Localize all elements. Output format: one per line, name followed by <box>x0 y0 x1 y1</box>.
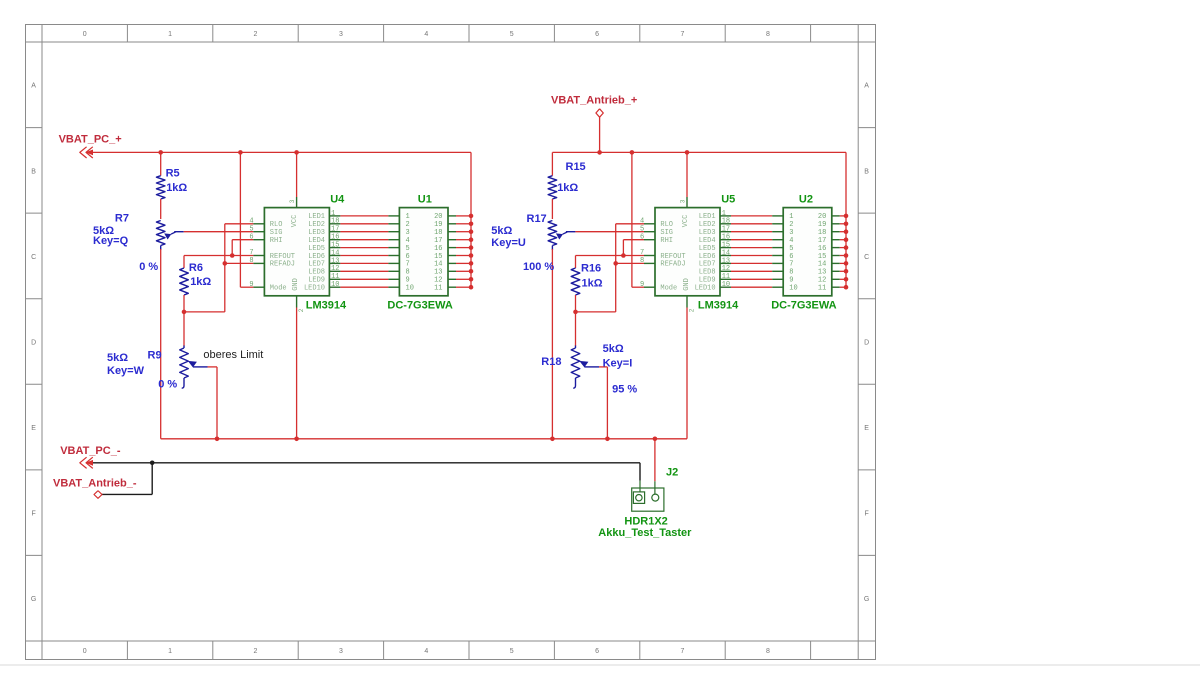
svg-text:Key=W: Key=W <box>107 365 145 377</box>
svg-text:1kΩ: 1kΩ <box>557 182 578 194</box>
svg-text:11: 11 <box>434 285 442 293</box>
svg-text:5: 5 <box>789 245 793 253</box>
svg-text:18: 18 <box>818 229 826 237</box>
svg-text:LED5: LED5 <box>308 245 325 253</box>
svg-text:G: G <box>864 596 869 603</box>
svg-text:7: 7 <box>789 261 793 269</box>
svg-text:LM3914: LM3914 <box>306 299 347 311</box>
svg-text:Mode: Mode <box>660 285 677 293</box>
svg-text:VBAT_Antrieb_+: VBAT_Antrieb_+ <box>551 95 637 107</box>
svg-text:LED6: LED6 <box>699 253 716 261</box>
svg-text:1: 1 <box>168 648 172 655</box>
svg-text:4: 4 <box>424 648 428 655</box>
svg-text:GND: GND <box>292 278 300 291</box>
svg-text:R9: R9 <box>148 349 162 361</box>
svg-text:2: 2 <box>298 308 305 312</box>
svg-text:E: E <box>31 425 36 432</box>
svg-text:4: 4 <box>249 217 253 225</box>
svg-text:U4: U4 <box>330 194 345 206</box>
svg-text:LED8: LED8 <box>308 269 325 277</box>
svg-text:19: 19 <box>818 221 826 229</box>
svg-text:10: 10 <box>722 281 730 289</box>
svg-text:16: 16 <box>722 234 730 242</box>
svg-text:17: 17 <box>722 226 730 234</box>
svg-text:11: 11 <box>818 285 826 293</box>
svg-text:95 %: 95 % <box>612 384 637 396</box>
svg-text:R7: R7 <box>115 212 129 224</box>
svg-text:oberes Limit: oberes Limit <box>203 349 263 361</box>
svg-text:RLO: RLO <box>660 221 673 229</box>
svg-text:4: 4 <box>406 237 410 245</box>
svg-text:Akku_Test_Taster: Akku_Test_Taster <box>598 527 692 539</box>
svg-text:8: 8 <box>640 257 644 265</box>
svg-text:14: 14 <box>331 249 339 257</box>
svg-text:13: 13 <box>331 257 339 265</box>
svg-text:7: 7 <box>681 31 685 38</box>
svg-text:SIG: SIG <box>270 229 283 237</box>
svg-text:10: 10 <box>406 285 414 293</box>
svg-text:F: F <box>31 511 35 518</box>
svg-text:REFOUT: REFOUT <box>270 253 295 261</box>
svg-text:A: A <box>31 83 36 90</box>
svg-text:7: 7 <box>406 261 410 269</box>
svg-text:RHI: RHI <box>270 237 283 245</box>
svg-text:LED4: LED4 <box>699 237 716 245</box>
svg-text:5: 5 <box>406 245 410 253</box>
svg-text:2: 2 <box>789 221 793 229</box>
svg-text:REFADJ: REFADJ <box>660 261 685 269</box>
svg-text:U5: U5 <box>721 194 735 206</box>
svg-text:15: 15 <box>434 253 442 261</box>
svg-text:U1: U1 <box>418 194 432 206</box>
svg-text:REFADJ: REFADJ <box>270 261 295 269</box>
svg-text:1kΩ: 1kΩ <box>582 277 603 289</box>
svg-text:12: 12 <box>722 265 730 273</box>
svg-text:3: 3 <box>406 229 410 237</box>
svg-text:8: 8 <box>789 269 793 277</box>
svg-text:19: 19 <box>434 221 442 229</box>
svg-text:12: 12 <box>331 265 339 273</box>
svg-text:LED10: LED10 <box>695 285 716 293</box>
svg-text:16: 16 <box>331 234 339 242</box>
svg-text:12: 12 <box>434 277 442 285</box>
svg-text:1: 1 <box>168 31 172 38</box>
svg-text:5: 5 <box>510 648 514 655</box>
svg-text:1kΩ: 1kΩ <box>166 182 187 194</box>
svg-text:DC-7G3EWA: DC-7G3EWA <box>387 299 452 311</box>
svg-text:R17: R17 <box>527 213 547 225</box>
svg-text:A: A <box>864 83 869 90</box>
svg-text:DC-7G3EWA: DC-7G3EWA <box>771 299 836 311</box>
svg-text:E: E <box>864 425 869 432</box>
svg-text:LED8: LED8 <box>699 269 716 277</box>
svg-text:1: 1 <box>789 213 793 221</box>
svg-text:9: 9 <box>640 281 644 289</box>
svg-text:15: 15 <box>331 242 339 250</box>
svg-text:3: 3 <box>289 199 296 203</box>
svg-text:18: 18 <box>434 229 442 237</box>
svg-text:2: 2 <box>254 31 258 38</box>
svg-text:6: 6 <box>640 233 644 241</box>
svg-text:6: 6 <box>789 253 793 261</box>
svg-text:3: 3 <box>679 199 686 203</box>
svg-text:LED3: LED3 <box>308 229 325 237</box>
svg-text:3: 3 <box>339 31 343 38</box>
svg-text:B: B <box>864 168 869 175</box>
svg-text:LED10: LED10 <box>304 285 325 293</box>
svg-text:10: 10 <box>331 281 339 289</box>
svg-text:C: C <box>864 254 869 261</box>
svg-text:14: 14 <box>818 261 826 269</box>
svg-text:LM3914: LM3914 <box>698 299 739 311</box>
svg-text:LED7: LED7 <box>308 261 325 269</box>
svg-text:VCC: VCC <box>682 215 690 228</box>
svg-text:13: 13 <box>434 269 442 277</box>
svg-text:17: 17 <box>818 237 826 245</box>
svg-text:12: 12 <box>818 277 826 285</box>
svg-text:1: 1 <box>331 210 335 218</box>
svg-text:9: 9 <box>249 281 253 289</box>
svg-text:16: 16 <box>818 245 826 253</box>
svg-text:13: 13 <box>722 257 730 265</box>
svg-text:3: 3 <box>789 229 793 237</box>
svg-text:Key=U: Key=U <box>491 237 526 249</box>
svg-text:LED1: LED1 <box>308 213 325 221</box>
svg-text:LED4: LED4 <box>308 237 325 245</box>
svg-text:LED2: LED2 <box>308 221 325 229</box>
svg-text:C: C <box>31 254 36 261</box>
svg-text:Mode: Mode <box>270 285 287 293</box>
svg-text:4: 4 <box>640 217 644 225</box>
svg-text:GND: GND <box>683 278 691 291</box>
svg-text:1: 1 <box>406 213 410 221</box>
svg-text:LED2: LED2 <box>699 221 716 229</box>
svg-text:HDR1X2: HDR1X2 <box>624 516 667 528</box>
svg-text:1kΩ: 1kΩ <box>190 276 211 288</box>
svg-text:8: 8 <box>249 257 253 265</box>
svg-text:SIG: SIG <box>660 229 673 237</box>
svg-text:13: 13 <box>818 269 826 277</box>
svg-text:LED6: LED6 <box>308 253 325 261</box>
svg-text:7: 7 <box>249 249 253 257</box>
svg-text:LED9: LED9 <box>308 277 325 285</box>
svg-text:9: 9 <box>789 277 793 285</box>
svg-text:7: 7 <box>640 249 644 257</box>
svg-text:6: 6 <box>595 31 599 38</box>
svg-text:0: 0 <box>83 648 87 655</box>
svg-text:17: 17 <box>331 226 339 234</box>
svg-text:LED9: LED9 <box>699 277 716 285</box>
svg-text:D: D <box>864 339 869 346</box>
svg-text:18: 18 <box>722 218 730 226</box>
svg-text:100 %: 100 % <box>523 261 554 273</box>
svg-text:5kΩ: 5kΩ <box>603 343 624 355</box>
svg-text:REFOUT: REFOUT <box>660 253 685 261</box>
svg-text:8: 8 <box>406 269 410 277</box>
svg-text:8: 8 <box>766 31 770 38</box>
svg-text:11: 11 <box>722 273 730 281</box>
svg-text:0 %: 0 % <box>158 379 177 391</box>
svg-text:D: D <box>31 339 36 346</box>
svg-text:RLO: RLO <box>270 221 283 229</box>
svg-text:2: 2 <box>406 221 410 229</box>
svg-text:6: 6 <box>595 648 599 655</box>
svg-text:B: B <box>31 168 36 175</box>
svg-text:R18: R18 <box>541 356 561 368</box>
svg-text:R5: R5 <box>166 167 180 179</box>
svg-text:4: 4 <box>789 237 793 245</box>
svg-text:5kΩ: 5kΩ <box>107 352 128 364</box>
svg-text:10: 10 <box>789 285 797 293</box>
svg-text:6: 6 <box>249 233 253 241</box>
svg-text:7: 7 <box>681 648 685 655</box>
svg-text:R6: R6 <box>189 262 203 274</box>
svg-text:3: 3 <box>339 648 343 655</box>
svg-text:6: 6 <box>406 253 410 261</box>
svg-text:VBAT_Antrieb_-: VBAT_Antrieb_- <box>53 478 137 490</box>
svg-text:5kΩ: 5kΩ <box>491 225 512 237</box>
svg-text:5: 5 <box>510 31 514 38</box>
svg-text:5: 5 <box>249 225 253 233</box>
svg-text:R16: R16 <box>581 263 601 275</box>
svg-text:RHI: RHI <box>660 237 673 245</box>
svg-text:8: 8 <box>766 648 770 655</box>
svg-text:Key=Q: Key=Q <box>93 235 129 247</box>
svg-text:F: F <box>864 511 868 518</box>
svg-text:VCC: VCC <box>291 215 299 228</box>
svg-text:15: 15 <box>722 242 730 250</box>
svg-text:J2: J2 <box>666 467 678 479</box>
svg-text:LED7: LED7 <box>699 261 716 269</box>
svg-text:20: 20 <box>434 213 442 221</box>
svg-text:VBAT_PC_+: VBAT_PC_+ <box>59 133 122 145</box>
svg-text:LED3: LED3 <box>699 229 716 237</box>
svg-text:R15: R15 <box>566 161 586 173</box>
svg-text:Key=I: Key=I <box>603 357 633 369</box>
svg-text:14: 14 <box>434 261 442 269</box>
svg-text:20: 20 <box>818 213 826 221</box>
svg-text:LED1: LED1 <box>699 213 716 221</box>
svg-text:18: 18 <box>331 218 339 226</box>
svg-text:G: G <box>31 596 36 603</box>
svg-text:LED5: LED5 <box>699 245 716 253</box>
svg-text:0 %: 0 % <box>139 261 158 273</box>
svg-text:15: 15 <box>818 253 826 261</box>
svg-text:4: 4 <box>424 31 428 38</box>
svg-text:0: 0 <box>83 31 87 38</box>
svg-text:U2: U2 <box>799 194 813 206</box>
svg-text:17: 17 <box>434 237 442 245</box>
svg-text:16: 16 <box>434 245 442 253</box>
svg-text:1: 1 <box>722 210 726 218</box>
svg-text:9: 9 <box>406 277 410 285</box>
svg-text:2: 2 <box>688 308 695 312</box>
svg-text:VBAT_PC_-: VBAT_PC_- <box>60 445 121 457</box>
svg-text:2: 2 <box>254 648 258 655</box>
svg-text:11: 11 <box>331 273 339 281</box>
svg-text:14: 14 <box>722 249 730 257</box>
svg-text:5: 5 <box>640 225 644 233</box>
